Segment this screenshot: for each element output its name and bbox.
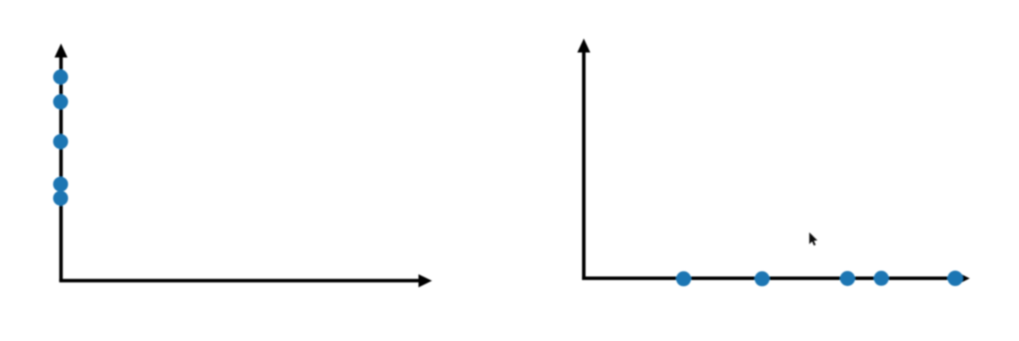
left y-axis arrowhead [55,44,68,58]
right dot 1 [676,271,691,286]
right dot 5 [948,271,963,286]
left dot 2 [53,94,68,109]
right y-axis [582,51,586,280]
left x-axis arrowhead [419,274,433,287]
right dot 3 [840,271,855,286]
right dot 2 [755,271,770,286]
left dot 1 [53,70,68,85]
right dot 4 [874,271,889,286]
right y-axis arrowhead [577,39,590,53]
left dot 3 [53,134,68,149]
left x-axis [59,279,419,283]
right x-axis [582,276,957,280]
left dot 5 [53,191,68,206]
mouse cursor [809,232,817,245]
right x-axis arrowhead [956,272,970,285]
left dot 4 [53,177,68,192]
left y-axis [59,56,63,282]
